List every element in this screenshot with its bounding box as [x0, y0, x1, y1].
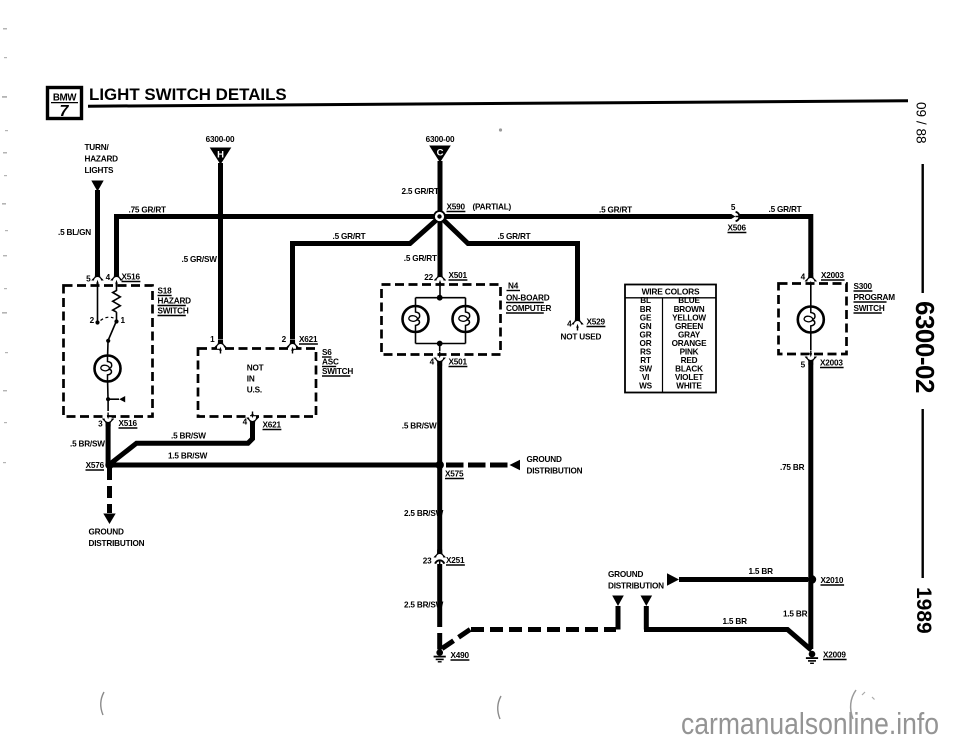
svg-text:S300: S300: [854, 282, 873, 291]
svg-text:X621: X621: [299, 335, 318, 344]
svg-text:LIGHTS: LIGHTS: [85, 166, 115, 175]
svg-text:DISTRIBUTION: DISTRIBUTION: [527, 467, 583, 476]
svg-text:.5 BR/SW: .5 BR/SW: [70, 440, 105, 449]
svg-text:.75 GR/RT: .75 GR/RT: [129, 206, 167, 215]
svg-text:GROUND: GROUND: [89, 528, 124, 537]
svg-text:6300-02: 6300-02: [910, 301, 940, 393]
svg-text:C: C: [437, 148, 444, 159]
svg-text:WIRE COLORS: WIRE COLORS: [642, 287, 700, 297]
svg-text:LIGHT SWITCH DETAILS: LIGHT SWITCH DETAILS: [89, 85, 287, 104]
svg-text:X590: X590: [447, 203, 466, 212]
svg-text:4: 4: [430, 358, 435, 367]
svg-text:X251: X251: [446, 556, 465, 565]
svg-text:.5 BR/SW: .5 BR/SW: [171, 432, 206, 441]
svg-text:7: 7: [60, 103, 70, 120]
svg-text:5: 5: [731, 203, 736, 212]
svg-text:4: 4: [801, 273, 806, 282]
svg-text:2: 2: [282, 335, 287, 344]
svg-text:X576: X576: [86, 461, 105, 470]
svg-text:X490: X490: [451, 651, 470, 660]
svg-text:4: 4: [567, 320, 572, 329]
svg-text:SWITCH: SWITCH: [322, 367, 353, 376]
svg-text:U.S.: U.S.: [247, 386, 262, 395]
svg-text:.5 BR/SW: .5 BR/SW: [402, 422, 437, 431]
svg-text:IN: IN: [247, 375, 255, 384]
svg-text:COMPUTER: COMPUTER: [506, 304, 552, 313]
svg-text:S18: S18: [158, 287, 173, 296]
svg-text:1.5 BR/SW: 1.5 BR/SW: [168, 452, 208, 461]
svg-text:6300-00: 6300-00: [426, 135, 455, 144]
svg-text:N4: N4: [508, 282, 519, 291]
svg-text:X506: X506: [728, 224, 747, 233]
svg-text:ASC: ASC: [322, 358, 339, 367]
svg-text:23: 23: [423, 557, 432, 566]
svg-text:X621: X621: [263, 421, 282, 430]
svg-text:22: 22: [424, 273, 433, 282]
svg-text:4: 4: [243, 418, 248, 427]
svg-text:X529: X529: [587, 318, 606, 327]
svg-text:HAZARD: HAZARD: [85, 155, 119, 164]
svg-text:2.5 BR/SW: 2.5 BR/SW: [404, 509, 444, 518]
svg-text:H: H: [217, 150, 224, 161]
svg-text:6300-00: 6300-00: [206, 135, 235, 144]
svg-text:.5 BL/GN: .5 BL/GN: [58, 228, 91, 237]
svg-text:.5 GR/RT: .5 GR/RT: [498, 232, 531, 241]
svg-text:1.5 BR: 1.5 BR: [749, 567, 774, 576]
svg-text:DISTRIBUTION: DISTRIBUTION: [89, 539, 145, 548]
svg-text:X2009: X2009: [823, 651, 846, 660]
svg-text:2: 2: [90, 316, 95, 325]
svg-text:1: 1: [210, 335, 215, 344]
svg-text:2.5 GR/RT: 2.5 GR/RT: [402, 187, 440, 196]
svg-text:X2003: X2003: [821, 271, 844, 280]
svg-text:TURN/: TURN/: [85, 143, 110, 152]
svg-text:ON-BOARD: ON-BOARD: [506, 294, 550, 303]
svg-text:1.5 BR: 1.5 BR: [783, 610, 808, 619]
svg-text:2.5 BR/SW: 2.5 BR/SW: [404, 601, 444, 610]
svg-text:DISTRIBUTION: DISTRIBUTION: [608, 582, 664, 591]
svg-text:X501: X501: [449, 271, 468, 280]
svg-text:carmanualsonline.info: carmanualsonline.info: [681, 706, 939, 741]
svg-text:HAZARD: HAZARD: [158, 297, 192, 306]
svg-text:4: 4: [106, 273, 111, 282]
svg-text:X501: X501: [449, 358, 468, 367]
svg-text:1: 1: [121, 316, 126, 325]
svg-text:X2010: X2010: [821, 576, 844, 585]
svg-text:S6: S6: [322, 348, 332, 357]
svg-text:1989: 1989: [912, 587, 935, 634]
svg-text:3: 3: [98, 420, 103, 429]
svg-text:X2003: X2003: [820, 359, 843, 368]
svg-text:.5 GR/RT: .5 GR/RT: [404, 254, 437, 263]
svg-text:09 / 88: 09 / 88: [914, 102, 929, 144]
svg-text:WHITE: WHITE: [676, 382, 702, 391]
svg-text:X516: X516: [122, 273, 141, 282]
svg-text:X516: X516: [119, 419, 138, 428]
svg-text:1.5 BR: 1.5 BR: [723, 617, 748, 626]
svg-text:.5 GR/SW: .5 GR/SW: [182, 255, 218, 264]
svg-text:.75 BR: .75 BR: [780, 463, 805, 472]
svg-text:GROUND: GROUND: [527, 455, 562, 464]
svg-text:NOT USED: NOT USED: [561, 333, 602, 342]
svg-text:X575: X575: [445, 470, 464, 479]
svg-text:GROUND: GROUND: [608, 570, 643, 579]
svg-text:.5 GR/RT: .5 GR/RT: [599, 206, 632, 215]
svg-text:SWITCH: SWITCH: [158, 307, 189, 316]
svg-text:WS: WS: [639, 382, 653, 391]
svg-text:5: 5: [86, 275, 91, 284]
svg-text:.5 GR/RT: .5 GR/RT: [333, 232, 366, 241]
svg-text:SWITCH: SWITCH: [854, 304, 885, 313]
svg-text:BMW: BMW: [53, 93, 77, 104]
svg-text:(PARTIAL): (PARTIAL): [473, 203, 512, 212]
svg-text:.5 GR/RT: .5 GR/RT: [769, 205, 802, 214]
svg-text:5: 5: [801, 361, 806, 370]
svg-text:PROGRAM: PROGRAM: [854, 293, 896, 302]
svg-text:NOT: NOT: [247, 364, 264, 373]
